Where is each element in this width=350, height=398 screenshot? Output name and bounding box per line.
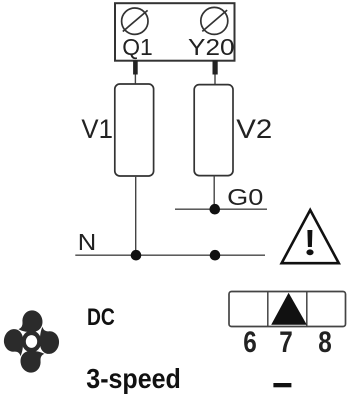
- selector divider 2: [306, 292, 308, 327]
- svg-text:N: N: [78, 229, 97, 255]
- selector divider 1: [267, 292, 269, 327]
- pin Y20 (thick connector): [213, 61, 218, 75]
- svg-text:Q1: Q1: [122, 34, 153, 60]
- pin Q1 (thick connector): [133, 61, 138, 75]
- net N wire: [75, 254, 265, 256]
- svg-text:6: 6: [243, 326, 257, 359]
- svg-text:3-speed: 3-speed: [86, 363, 181, 394]
- wire V2 to G0: [213, 176, 215, 210]
- svg-text:Y20: Y20: [188, 34, 235, 60]
- warning triangle: [282, 210, 339, 263]
- svg-text:7: 7: [279, 326, 293, 359]
- actuator V2: [194, 85, 233, 176]
- actuator V1: [115, 84, 154, 176]
- screw terminal Y20: [201, 7, 228, 34]
- screw terminal Q1: [122, 8, 148, 34]
- svg-text:V2: V2: [236, 114, 272, 144]
- junction dot G0: [210, 204, 221, 215]
- svg-text:V1: V1: [81, 114, 113, 144]
- wire Y20 to V2: [214, 75, 216, 86]
- speed selector box: [229, 292, 346, 327]
- wire Q1 to V1: [134, 75, 136, 85]
- junction dot N1: [131, 250, 142, 261]
- svg-text:8: 8: [318, 326, 332, 359]
- junction dot N2: [210, 250, 221, 261]
- svg-text:G0: G0: [227, 184, 263, 210]
- svg-text:DC: DC: [87, 304, 115, 331]
- fan icon: [4, 310, 59, 372]
- wire V1 to N: [135, 176, 137, 255]
- terminal block box: [115, 3, 235, 61]
- dash (no indicator): [273, 383, 291, 387]
- selector marker triangle (position 7): [271, 293, 307, 325]
- net G0 wire: [175, 208, 267, 210]
